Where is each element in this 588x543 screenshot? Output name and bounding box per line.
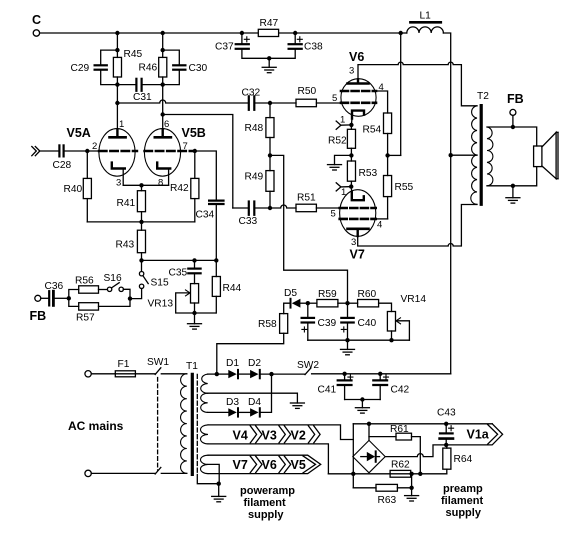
svg-text:R44: R44 — [223, 283, 242, 294]
switch SW2 — [297, 360, 319, 375]
svg-text:R40: R40 — [64, 184, 83, 195]
node R62/R63 junction — [409, 472, 413, 476]
svg-text:C34: C34 — [196, 210, 215, 221]
wire secondary top lead — [487, 127, 537, 146]
wire bridge right corner to C43 minus node (hops R61 drop) — [385, 445, 446, 457]
banner V1a — [446, 424, 502, 445]
resistor R42 — [170, 151, 199, 222]
node R45/C29 bottom — [115, 82, 119, 86]
resistor R62 — [390, 460, 411, 478]
capacitor C38 electrolytic — [269, 33, 323, 58]
node R59/R60/C40 — [345, 301, 349, 305]
svg-text:V6: V6 — [262, 458, 277, 472]
ground C41/C42 — [355, 400, 369, 414]
ground below C37/C38 — [262, 58, 276, 72]
svg-text:R55: R55 — [395, 182, 414, 193]
node R45/C29 top — [115, 48, 119, 52]
svg-text:AC mains: AC mains — [68, 419, 124, 433]
svg-text:2: 2 — [92, 141, 97, 152]
SW1 mechanical link (dashed) — [157, 378, 159, 471]
terminal FB output — [507, 92, 524, 127]
V7 grids dashed — [340, 208, 376, 219]
svg-text:R42: R42 — [170, 183, 189, 194]
svg-text:C38: C38 — [304, 42, 323, 53]
wire C41/C42 bottoms — [345, 399, 381, 401]
svg-text:C29: C29 — [71, 63, 90, 74]
wire R46 bottom lead — [162, 77, 164, 115]
svg-text:5: 5 — [332, 93, 337, 104]
svg-text:V5A: V5A — [67, 126, 91, 140]
svg-text:8: 8 — [158, 178, 163, 189]
wire bias rail y=260.4 — [142, 259, 217, 261]
ground HT center tap — [290, 403, 304, 408]
node C43 bottom / R64 top — [444, 443, 448, 447]
node C33/R49/R51 — [268, 206, 272, 210]
node R46/C30 bottom — [161, 82, 165, 86]
svg-text:supply: supply — [446, 507, 482, 519]
svg-text:D3: D3 — [226, 397, 239, 408]
wire mains bottom to SW1 — [91, 472, 155, 474]
capacitor C42 electrolytic — [373, 374, 409, 400]
svg-text:C33: C33 — [239, 216, 258, 227]
ground below VR13 — [188, 313, 202, 329]
capacitor C29 — [71, 50, 118, 85]
filament tick V6 — [336, 121, 351, 129]
wire R45 top lead — [116, 33, 118, 57]
node R46/C30 top — [161, 48, 165, 52]
resistor R55 — [384, 176, 414, 219]
resistor R58 — [217, 303, 290, 374]
switch SW1 top pole — [147, 357, 187, 374]
svg-text:3: 3 — [349, 66, 354, 77]
wire B+ riser from SW2 rail to T2 center tap — [450, 155, 452, 374]
svg-text:VR13: VR13 — [148, 299, 174, 310]
node C32/R48/R50 — [268, 101, 272, 105]
node R54/R55 junction — [385, 153, 389, 157]
svg-text:R51: R51 — [297, 193, 316, 204]
capacitor C36 — [41, 281, 69, 305]
node banner feed on vertical — [351, 472, 355, 476]
wire V5B plate to right y=114.5 — [163, 115, 233, 209]
ground at R52/R53 junction — [328, 155, 352, 170]
svg-text:C32: C32 — [242, 88, 261, 99]
node R58 tap on HT top lead — [215, 372, 219, 376]
svg-text:D4: D4 — [248, 397, 261, 408]
terminal AC mains bottom — [85, 470, 91, 476]
switch S15 — [130, 260, 169, 298]
ground bias rail — [341, 340, 355, 355]
svg-text:R53: R53 — [359, 168, 378, 179]
svg-text:preamp: preamp — [443, 483, 483, 495]
T1 HT secondary upper section — [201, 374, 217, 393]
wire B+ rail from SW2 to riser — [312, 373, 451, 375]
inductor L1 — [401, 11, 444, 34]
wire bridge top corner to rail — [368, 424, 370, 441]
switch S16 — [104, 273, 131, 299]
svg-text:C39: C39 — [318, 318, 337, 329]
ground T1 — [212, 484, 226, 502]
svg-text:V7: V7 — [233, 458, 248, 472]
svg-text:R64: R64 — [454, 454, 473, 465]
resistor R40 — [64, 151, 92, 222]
svg-text:7: 7 — [183, 141, 188, 152]
capacitor C33 — [233, 202, 270, 228]
node R63/ground — [409, 486, 413, 490]
node C37/C38 ground junction — [267, 56, 271, 60]
wire R63 branch — [353, 487, 376, 489]
capacitor C37 electrolytic — [215, 33, 269, 58]
wire screen-supply vertical x=400.7 — [400, 33, 402, 155]
wire V5B plate lead — [162, 115, 164, 130]
resistor R43 — [116, 230, 146, 260]
V5B plate — [155, 130, 171, 138]
svg-text:R46: R46 — [139, 63, 158, 74]
wire C43/V1a top rail — [353, 423, 492, 425]
banner2 chevron separator after V7 — [250, 456, 262, 472]
node C34/R44 junction — [214, 258, 218, 262]
svg-text:F1: F1 — [118, 359, 130, 370]
wire cathodes to R41 — [123, 185, 168, 190]
svg-text:R58: R58 — [258, 319, 277, 330]
svg-text:T2: T2 — [477, 91, 489, 102]
capacitor C41 electrolytic — [318, 374, 353, 400]
node C40/ground — [345, 338, 349, 342]
svg-text:SW1: SW1 — [147, 357, 169, 368]
node speaker ground tap — [511, 184, 515, 188]
svg-text:R54: R54 — [363, 125, 382, 136]
svg-text:V5: V5 — [291, 458, 306, 472]
node V6 cathode — [349, 123, 353, 127]
svg-text:C28: C28 — [53, 160, 72, 171]
svg-text:C41: C41 — [318, 385, 337, 396]
svg-text:poweramp: poweramp — [240, 485, 295, 497]
banner winding V4V3V2 (T1 heater winding 1) — [201, 425, 354, 474]
node R52/R53 junction — [349, 153, 353, 157]
V5B cathode — [157, 163, 170, 186]
svg-text:C40: C40 — [358, 318, 377, 329]
wire center tap — [451, 154, 477, 156]
pin 4 label V7 + screen wire to R55 — [376, 219, 388, 231]
V6 plate — [348, 79, 369, 83]
wire V6 anode lead + anode rail to T2 primary top (hops x=400.7 and x=450.7) — [358, 62, 477, 106]
diode D1 — [226, 358, 239, 378]
node V5A plate — [115, 101, 119, 105]
svg-text:V1a: V1a — [467, 428, 490, 442]
svg-text:R43: R43 — [116, 240, 135, 251]
svg-text:R47: R47 — [260, 18, 279, 29]
svg-text:FB: FB — [507, 92, 524, 106]
node top rail at R46 branch — [161, 31, 165, 35]
tube V7 envelope — [340, 190, 376, 262]
banner2 chevron separator after V6 — [279, 456, 291, 472]
node C42 tap — [378, 372, 382, 376]
svg-text:D2: D2 — [248, 358, 261, 369]
svg-text:C37: C37 — [215, 42, 234, 53]
capacitor C34 — [195, 151, 224, 260]
banner winding V7V6V5 (T1 heater winding 2) — [201, 455, 321, 473]
capacitor C31 — [117, 79, 162, 103]
ground below speaker — [506, 186, 520, 203]
svg-text:6: 6 — [164, 119, 169, 130]
svg-text:5: 5 — [331, 209, 336, 220]
svg-text:3: 3 — [116, 178, 121, 189]
terminal AC mains top — [85, 371, 91, 377]
svg-text:3: 3 — [351, 237, 356, 248]
svg-text:R62: R62 — [391, 460, 410, 471]
transformer T2 primary winding — [471, 106, 477, 205]
svg-text:C: C — [32, 13, 41, 27]
resistor R56 — [69, 276, 108, 299]
svg-text:V4: V4 — [233, 429, 248, 443]
resistor R52 — [328, 125, 356, 161]
wire HT bottom lead to D3 — [208, 411, 229, 413]
node S15/S16/R57 junction — [128, 296, 132, 300]
resistor R48 — [245, 103, 275, 171]
wire top B+ rail y=33 — [40, 32, 401, 34]
svg-text:1: 1 — [340, 115, 345, 126]
wire L1 right lead down to T2 center tap — [443, 33, 450, 155]
potentiometer VR13 — [148, 284, 216, 313]
capacitor C40 electrolytic — [341, 303, 376, 340]
node V7 cathode — [349, 184, 353, 188]
node top rail at R45 branch — [115, 31, 119, 35]
potentiometer VR14 — [387, 294, 426, 340]
svg-text:SW2: SW2 — [297, 360, 319, 371]
wire C28 to V5A grid — [65, 150, 100, 152]
speaker — [534, 132, 558, 178]
T1 shield (dashed) — [197, 374, 218, 483]
node shield/heater CT ground — [217, 482, 221, 486]
svg-text:filament: filament — [244, 497, 287, 509]
node V5B plate — [161, 112, 165, 116]
wire input to C28 — [40, 150, 58, 152]
V5A cathode — [112, 163, 125, 186]
transformer T1 primary winding — [181, 374, 187, 474]
resistor R60 — [348, 289, 392, 312]
node C41 tap — [342, 372, 346, 376]
banner1 chevron separator after V2 — [308, 426, 320, 443]
node R61 drop on R62 row — [418, 472, 422, 476]
node VR14 bottom — [389, 338, 393, 342]
label preamp filament supply — [441, 483, 484, 519]
transformer T2 secondary winding — [487, 127, 493, 186]
wire cathode bottom rail y=221.9 — [87, 221, 195, 223]
capacitor C35 — [169, 260, 201, 283]
svg-text:R50: R50 — [298, 86, 317, 97]
svg-text:S15: S15 — [151, 278, 169, 289]
svg-text:D5: D5 — [284, 288, 297, 299]
wire R54/R55 junction to screen rail — [388, 154, 401, 156]
node R41 bottom rail — [139, 220, 143, 224]
input arrow (signal in) — [32, 147, 40, 156]
resistor R44 — [212, 260, 241, 313]
node rectifier output — [269, 372, 273, 376]
T2 core — [477, 91, 489, 204]
svg-text:1: 1 — [341, 187, 346, 198]
svg-text:VR14: VR14 — [401, 294, 427, 305]
wire V7 anode to T2 primary bottom (hops x=450.7) — [358, 205, 477, 247]
node cathode junction — [139, 183, 143, 187]
resistor R41 — [117, 191, 146, 212]
V6 grids dashed — [341, 91, 376, 103]
tube V6 envelope — [341, 50, 376, 116]
wire bias ground rail — [308, 339, 410, 341]
node V5A grid — [85, 149, 89, 153]
terminal FB input — [30, 295, 47, 323]
svg-text:V7: V7 — [350, 248, 365, 262]
ground preamp supply — [405, 488, 419, 501]
node top rail at C37 — [240, 31, 244, 35]
capacitor C30 — [163, 50, 208, 85]
svg-text:V3: V3 — [262, 429, 277, 443]
svg-text:C42: C42 — [391, 385, 410, 396]
node R48/R49 junction — [268, 153, 272, 157]
fuse F1 — [115, 359, 135, 377]
node bridge top at rail — [367, 422, 371, 426]
terminal C — [32, 13, 41, 36]
resistor R64 — [443, 445, 473, 474]
resistor R54 — [363, 113, 392, 176]
wire mains top to F1 — [91, 373, 115, 375]
resistor R63 — [376, 474, 412, 506]
filament tick V7 — [336, 183, 351, 191]
tube V5B envelope — [144, 126, 205, 176]
resistor R57 — [69, 298, 130, 323]
bridge rectifier — [353, 440, 385, 472]
svg-text:V2: V2 — [291, 429, 306, 443]
resistor R47 (series in rail) — [258, 18, 278, 37]
node C35 top — [192, 258, 196, 262]
wire R46 top lead — [162, 33, 164, 57]
svg-text:R56: R56 — [75, 276, 94, 287]
node C43 top on rail — [444, 422, 448, 426]
svg-text:R52: R52 — [328, 136, 347, 147]
node C41/C42 ground — [360, 397, 364, 401]
node D5/R59/C39 — [306, 301, 310, 305]
node T2 center tap — [449, 153, 453, 157]
svg-text:D1: D1 — [226, 358, 239, 369]
T1 core — [186, 361, 198, 474]
svg-text:L1: L1 — [420, 11, 432, 22]
svg-text:C35: C35 — [169, 268, 188, 279]
svg-text:R63: R63 — [378, 495, 397, 506]
resistor R45 — [113, 49, 142, 77]
resistor R53 — [347, 161, 377, 187]
node C36 / R56 R57 split — [67, 296, 71, 300]
V7 cathode — [351, 187, 364, 201]
wire secondary bottom lead — [487, 167, 537, 186]
capacitor C28 — [53, 145, 72, 171]
svg-text:R59: R59 — [318, 289, 337, 300]
banner2 center tap to ground — [208, 464, 219, 483]
resistor R50 — [270, 86, 341, 107]
labels V4 V3 V2 — [233, 429, 306, 443]
pin 4 label V6 + screen wire to R54 — [376, 82, 388, 113]
V5A plate — [110, 130, 126, 138]
wire HT top lead to D1 — [217, 373, 229, 375]
resistor R61 — [369, 424, 420, 474]
capacitor C39 electrolytic — [302, 303, 337, 340]
diode D2 — [248, 358, 261, 378]
tube V5A envelope — [67, 126, 136, 176]
svg-text:filament: filament — [441, 495, 484, 507]
svg-text:R45: R45 — [124, 49, 143, 60]
V5A grid (dashed) — [99, 150, 137, 152]
banner1 chevron separator after V4 — [250, 426, 262, 443]
svg-text:4: 4 — [377, 220, 382, 231]
wire preamp heater vertical x=353.3 — [352, 424, 354, 488]
wire banner1 bottom feed to R62 row — [328, 473, 446, 475]
wire F1 to SW1 — [135, 373, 155, 375]
resistor R49 — [245, 171, 275, 208]
svg-text:supply: supply — [248, 509, 284, 521]
svg-text:S16: S16 — [104, 273, 122, 284]
svg-text:R57: R57 — [76, 313, 95, 324]
wire V5A plate to C32 (hops over V5B plate lead) — [117, 100, 248, 103]
wire D3 to D4 — [238, 411, 250, 413]
banner1 chevron separator after V3 — [279, 426, 291, 443]
V5B grid (dashed) — [145, 150, 195, 152]
svg-text:C30: C30 — [189, 63, 208, 74]
svg-text:R48: R48 — [245, 123, 264, 134]
wire D4 up to rectifier output node — [260, 374, 272, 412]
wire R41 bottom lead — [141, 212, 143, 231]
svg-text:C43: C43 — [437, 408, 456, 419]
label poweramp filament supply — [240, 485, 295, 521]
diode D4 — [248, 397, 261, 417]
node FB tap — [511, 125, 515, 129]
svg-text:R60: R60 — [358, 289, 377, 300]
V6 cathode — [351, 111, 364, 125]
wire V5A plate lead — [116, 103, 118, 130]
T1 HT secondary lower section — [201, 393, 298, 412]
V7 plate — [348, 229, 369, 236]
node top rail at C38 — [293, 31, 297, 35]
resistor R51 — [296, 193, 340, 212]
svg-text:T1: T1 — [186, 361, 198, 372]
wire R48/R49 junction to bias network — [270, 155, 348, 303]
svg-text:V6: V6 — [349, 50, 364, 64]
svg-text:C36: C36 — [45, 281, 64, 292]
svg-text:1: 1 — [119, 119, 124, 130]
resistor R59 — [308, 289, 348, 307]
wire rectifier output to SW2 — [260, 373, 305, 375]
node top rail at L1 — [399, 31, 403, 35]
capacitor C32 — [242, 88, 271, 110]
svg-text:C31: C31 — [133, 92, 152, 103]
node VR13 bottom / ground — [192, 311, 196, 315]
svg-text:R41: R41 — [117, 198, 136, 209]
switch SW1 bottom pole — [155, 467, 187, 474]
diode D5 — [284, 288, 308, 308]
diode D3 — [226, 397, 239, 417]
svg-text:R61: R61 — [390, 424, 409, 435]
svg-text:R49: R49 — [245, 172, 264, 183]
capacitor C43 electrolytic — [437, 408, 456, 445]
resistor R46 — [139, 57, 167, 77]
node R43 bottom — [139, 258, 143, 262]
wire D1 to D2 — [238, 373, 250, 375]
wire R45 bottom lead — [116, 77, 118, 103]
svg-text:V5B: V5B — [182, 126, 206, 140]
node V5B grid — [193, 149, 197, 153]
labels V7 V6 V5 — [233, 458, 306, 472]
svg-text:FB: FB — [30, 309, 47, 323]
wire C33 node to R51 (hops over bias feed) — [270, 205, 296, 208]
